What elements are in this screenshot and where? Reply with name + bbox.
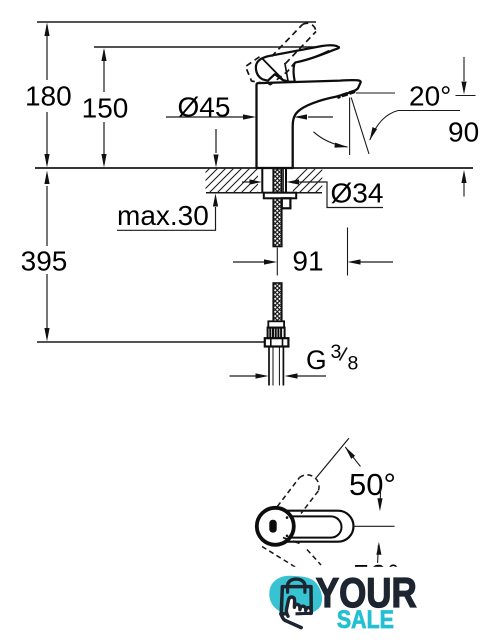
top view: dash dots <box>286 516 289 519</box>
top view: 50deg leader line <box>316 438 349 478</box>
logo white background <box>248 567 488 640</box>
20deg arc arrow right <box>370 111 398 141</box>
wire counter top line <box>35 167 473 169</box>
svg-text:Ø45: Ø45 <box>178 92 231 123</box>
mounting washer <box>264 193 296 199</box>
faucet body outline <box>257 80 361 168</box>
20deg arc arrow left <box>314 132 348 147</box>
mounting nut <box>282 198 291 208</box>
label max.30 <box>117 194 218 232</box>
hex nut <box>265 338 289 346</box>
svg-text:90: 90 <box>448 117 479 148</box>
hose crimp collar <box>268 321 284 327</box>
svg-text:SALE: SALE <box>337 606 394 634</box>
logo teal blob <box>269 576 322 614</box>
svg-text:max.30: max.30 <box>117 200 209 231</box>
leader from aerator <box>356 92 395 94</box>
dimension 180 <box>25 23 72 168</box>
lever (solid) <box>256 45 339 81</box>
svg-text:50°: 50° <box>349 467 396 502</box>
top view: inner lever stadium <box>264 516 342 537</box>
svg-text:395: 395 <box>21 246 68 277</box>
connection tube <box>269 347 283 386</box>
hose ferrule with stripes <box>268 328 285 339</box>
svg-text:150: 150 <box>82 93 129 124</box>
dimension 91 <box>233 228 393 277</box>
label D45 with leader arrows <box>166 92 333 168</box>
counter hatching left <box>184 166 284 194</box>
top view: dark pill mark <box>269 520 276 533</box>
wire counter bottom line <box>206 192 322 194</box>
top view: body circle <box>257 508 294 545</box>
shank walls <box>262 169 286 192</box>
wire top reference line (spout max height) <box>37 21 316 23</box>
top view: dashed raised lever <box>267 475 319 520</box>
20 degree reference vertical <box>349 98 351 156</box>
svg-text:20°: 20° <box>409 81 451 112</box>
lever facet line <box>263 59 284 80</box>
braided hose lower <box>273 283 282 322</box>
lever dashed (raised position) <box>246 23 317 84</box>
label G 3/8 <box>230 341 359 379</box>
top view: angular dimension arrows <box>379 489 382 509</box>
svg-text:91: 91 <box>292 246 323 277</box>
wire 150 reference line <box>94 46 340 48</box>
dimension 90 <box>448 57 479 197</box>
dimension D34 arrows <box>242 178 383 209</box>
dimension 395 <box>21 171 68 342</box>
top view: outer stadium <box>260 511 354 542</box>
threaded rod through counter <box>273 169 282 192</box>
logo shopping bag <box>281 587 311 614</box>
svg-text:180: 180 <box>25 81 72 112</box>
aerator <box>337 91 355 97</box>
dimension 150 <box>82 48 129 168</box>
top view: centerline <box>354 525 395 527</box>
svg-text:8: 8 <box>348 353 359 375</box>
top view: dashed lowered lever <box>262 547 321 568</box>
svg-text:G: G <box>306 345 327 375</box>
counter hatching right <box>282 166 342 194</box>
wire bottom reference line <box>37 341 267 343</box>
top view: dashed lowered lever edge over stadium <box>283 538 302 545</box>
lever inner blade line <box>296 50 329 62</box>
svg-text:Ø34: Ø34 <box>331 178 384 209</box>
top view: 50deg arc arrow <box>345 447 360 467</box>
logo hand <box>286 597 311 616</box>
braided hose upper <box>273 198 282 246</box>
20 degree slant line <box>351 98 369 155</box>
lever neck line <box>285 63 288 81</box>
